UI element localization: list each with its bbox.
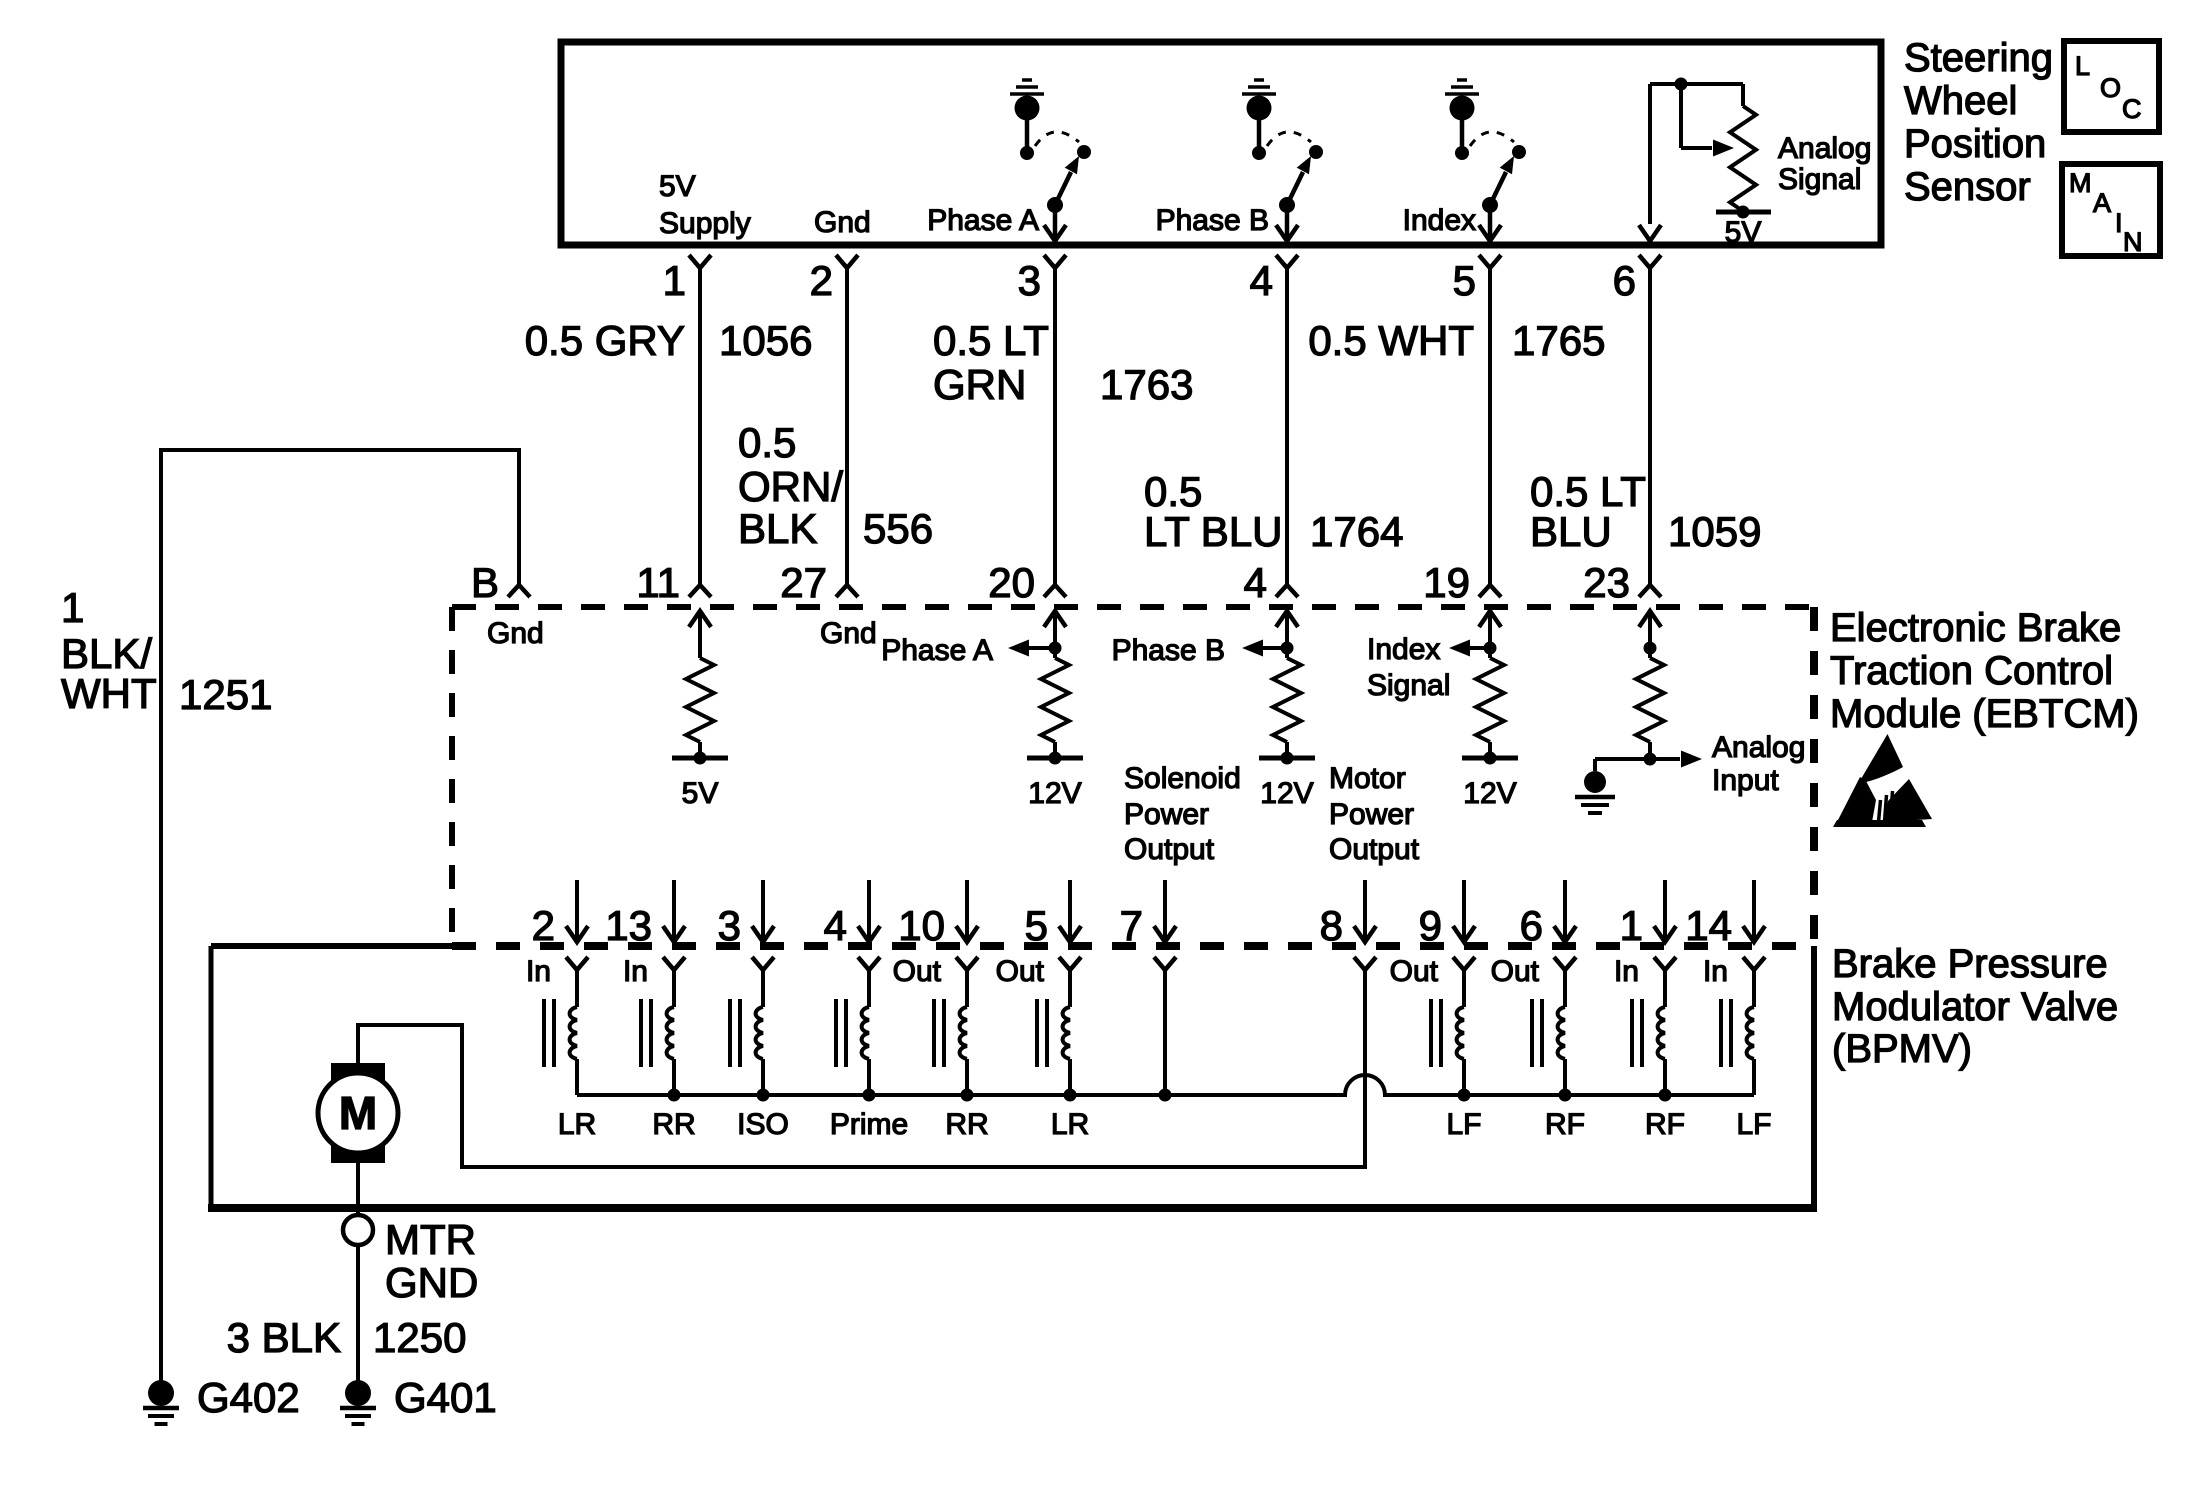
- label Motor Power Output: [1329, 762, 1420, 866]
- BPMV pin connector below EBTCM pin 10: [893, 955, 978, 988]
- svg-text:6: 6: [1520, 902, 1543, 949]
- svg-text:ORN/: ORN/: [738, 463, 843, 510]
- svg-text:Phase B: Phase B: [1112, 634, 1225, 667]
- svg-text:5: 5: [1025, 902, 1048, 949]
- svg-text:Phase A: Phase A: [927, 204, 1039, 237]
- EBTCM output pin 1 with arrow: [1620, 880, 1676, 949]
- svg-text:Module (EBTCM): Module (EBTCM): [1830, 692, 2139, 736]
- svg-text:Supply: Supply: [659, 207, 751, 240]
- sensor pin 6 connector: [1613, 255, 1661, 304]
- EBTCM pin 23 connector: [1583, 559, 1661, 606]
- svg-text:6: 6: [1613, 257, 1636, 304]
- BPMV pin connector below EBTCM pin 6: [1491, 955, 1576, 988]
- wire 1 BLK/WHT 1251 (EBTCM pin B to G402): [161, 450, 519, 1382]
- wire 0.5 LT BLU 1059 (sensor pin 6 to EBTCM): [1648, 268, 1652, 585]
- EBTCM output pin 8 with arrow: [1320, 880, 1376, 949]
- svg-text:LF: LF: [1446, 1108, 1481, 1141]
- svg-text:Gnd: Gnd: [487, 617, 544, 650]
- svg-text:Out: Out: [893, 955, 942, 988]
- solenoid coil LF (x=1754): [1721, 970, 1772, 1141]
- BPMV box left edge: [209, 946, 214, 1208]
- label Brake Pressure Modulator Valve (BPMV): [1832, 942, 2118, 1071]
- svg-text:14: 14: [1685, 902, 1732, 949]
- svg-text:M: M: [339, 1087, 377, 1139]
- BPMV pin connector below EBTCM pin 14: [1703, 955, 1765, 988]
- BPMV pin connector below EBTCM pin 2: [526, 955, 588, 988]
- label Solenoid Power Output: [1124, 762, 1241, 866]
- wire label 1 BLK/WHT 1251: [61, 584, 272, 718]
- BPMV box right edge: [1811, 946, 1817, 1208]
- bus junction at x=1165: [1159, 1089, 1172, 1102]
- solenoid coil Prime (x=869): [830, 970, 908, 1141]
- BPMV pin connector below EBTCM pin 13: [623, 955, 685, 988]
- svg-text:Output: Output: [1329, 833, 1420, 866]
- label 5V Supply (pin 1): [659, 170, 751, 240]
- solenoid coil ISO (x=763): [730, 970, 789, 1141]
- svg-text:4: 4: [1250, 257, 1273, 304]
- svg-text:5V: 5V: [659, 170, 696, 203]
- EBTCM output pin 2 with arrow: [532, 880, 588, 949]
- wire label 0.5 LT BLU 1059: [1530, 468, 1761, 555]
- ground G401: [340, 1374, 497, 1424]
- svg-text:0.5: 0.5: [738, 419, 796, 466]
- svg-text:19: 19: [1423, 559, 1470, 606]
- svg-text:Index: Index: [1367, 633, 1440, 666]
- svg-text:Wheel: Wheel: [1904, 79, 2017, 123]
- svg-text:ISO: ISO: [737, 1108, 789, 1141]
- 5V rail bar under potentiometer: [1716, 206, 1771, 250]
- svg-text:BLU: BLU: [1530, 508, 1612, 555]
- svg-text:23: 23: [1583, 559, 1630, 606]
- wire 0.5 LT GRN 1763 (sensor pin 3 to EBTCM): [1053, 268, 1057, 585]
- svg-text:0.5 LT: 0.5 LT: [933, 317, 1049, 364]
- ground G402: [143, 1374, 300, 1424]
- svg-text:Out: Out: [996, 955, 1045, 988]
- svg-text:Power: Power: [1329, 798, 1414, 831]
- bus junction at x=1565: [1559, 1089, 1572, 1102]
- EBTCM pin B connector: [471, 559, 530, 606]
- bus junction at x=763: [757, 1089, 770, 1102]
- EBTCM/BPMV shared dashed edge: [452, 942, 1814, 950]
- svg-text:MTR: MTR: [385, 1216, 476, 1263]
- BPMV pin connector below EBTCM pin 8: [1354, 957, 1376, 970]
- EBTCM output pin 5 with arrow: [1025, 880, 1081, 949]
- sensor pin 1 connector: [663, 255, 711, 304]
- svg-text:11: 11: [636, 559, 680, 606]
- Phase B signal tap arrow: [1112, 634, 1287, 667]
- bus junction at x=1070: [1064, 1089, 1077, 1102]
- svg-text:0.5 WHT: 0.5 WHT: [1308, 317, 1474, 364]
- Phase A signal tap arrow: [881, 634, 1055, 667]
- analog input resistor at pin 23: [1639, 611, 1661, 658]
- EBTCM output pin 7 with arrow: [1120, 880, 1176, 949]
- wire label 0.5 LT GRN 1763: [933, 317, 1193, 408]
- svg-text:Analog: Analog: [1712, 731, 1805, 764]
- svg-text:Power: Power: [1124, 798, 1209, 831]
- solenoid coil RR (x=674): [641, 970, 696, 1141]
- svg-text:Input: Input: [1712, 764, 1779, 797]
- svg-text:8: 8: [1320, 902, 1343, 949]
- svg-text:LR: LR: [558, 1108, 596, 1141]
- svg-text:3: 3: [718, 902, 741, 949]
- svg-text:10: 10: [898, 902, 945, 949]
- svg-text:1: 1: [663, 257, 686, 304]
- encoder contact switch for Phase A: [1010, 80, 1091, 241]
- label Steering Wheel Position Sensor: [1904, 36, 2053, 209]
- EBTCM pin 27 connector: [780, 559, 858, 606]
- svg-text:4: 4: [1244, 559, 1267, 606]
- svg-text:13: 13: [605, 902, 652, 949]
- BPMV pin connector below EBTCM pin 9: [1390, 955, 1475, 988]
- pump motor M: [318, 1063, 398, 1163]
- potentiometer R (analog signal) with 5V rail: [1639, 78, 1743, 242]
- svg-text:Prime: Prime: [830, 1108, 908, 1141]
- svg-text:In: In: [1703, 955, 1728, 988]
- svg-text:Phase A: Phase A: [881, 634, 993, 667]
- svg-text:Modulator Valve: Modulator Valve: [1832, 985, 2118, 1029]
- pull-up resistor to 12V at pin 19: [1479, 611, 1501, 658]
- steering wheel position sensor box: [561, 42, 1881, 245]
- svg-text:20: 20: [988, 559, 1035, 606]
- EBTCM output pin 10 with arrow: [898, 880, 978, 949]
- EBTCM output pin 3 with arrow: [718, 880, 774, 949]
- svg-text:12V: 12V: [1463, 777, 1516, 810]
- EBTCM output pin 6 with arrow: [1520, 880, 1576, 949]
- svg-text:27: 27: [780, 559, 827, 606]
- BPMV pin connector below EBTCM pin 7: [1154, 957, 1176, 970]
- wire label 0.5 GRY 1056: [525, 317, 813, 364]
- sensor pin 2 connector: [810, 255, 858, 304]
- ESD sensitive device symbol: [1833, 734, 1932, 827]
- solenoid coil LR (x=577): [544, 970, 596, 1141]
- svg-text:12V: 12V: [1028, 777, 1081, 810]
- svg-text:C: C: [2122, 94, 2142, 124]
- internal ground symbol at pin 23: [1575, 771, 1615, 813]
- svg-text:2: 2: [532, 902, 555, 949]
- svg-text:1764: 1764: [1310, 508, 1403, 555]
- solenoid coil LR (x=1070): [1037, 970, 1089, 1141]
- wire 3 BLK 1250: [227, 1245, 467, 1382]
- bus junction at x=1665: [1659, 1089, 1672, 1102]
- svg-text:RR: RR: [945, 1108, 988, 1141]
- resistor element of potentiometer: [1730, 106, 1756, 211]
- bus junction at x=869: [863, 1089, 876, 1102]
- label Analog Signal: [1778, 132, 1871, 196]
- svg-text:Position: Position: [1904, 122, 2046, 166]
- bus junction at x=967: [961, 1089, 974, 1102]
- EBTCM output pin 4 with arrow: [824, 880, 880, 949]
- svg-text:In: In: [623, 955, 648, 988]
- wire 0.5 WHT 1765 (sensor pin 5 to EBTCM): [1488, 268, 1492, 585]
- svg-text:5V: 5V: [682, 777, 719, 810]
- svg-text:Out: Out: [1491, 955, 1540, 988]
- solenoid coil RR (x=967): [934, 970, 989, 1141]
- EBTCM pin 19 connector: [1423, 559, 1501, 606]
- EBTCM output pin 14 with arrow: [1685, 880, 1765, 949]
- svg-text:Analog: Analog: [1778, 132, 1871, 165]
- sensor pin 4 connector: [1250, 255, 1298, 304]
- BPMV pin connector below EBTCM pin 4: [858, 957, 880, 970]
- BPMV pin connector below EBTCM pin 5: [996, 955, 1081, 988]
- svg-text:Traction Control: Traction Control: [1830, 649, 2113, 693]
- EBTCM dashed box top edge: [452, 604, 1815, 610]
- svg-text:G402: G402: [197, 1374, 300, 1421]
- svg-text:Gnd: Gnd: [814, 206, 871, 239]
- svg-text:GND: GND: [385, 1259, 478, 1306]
- EBTCM pin 4 connector: [1244, 559, 1298, 606]
- svg-text:12V: 12V: [1260, 777, 1313, 810]
- svg-text:Gnd: Gnd: [820, 617, 877, 650]
- motor ground wire: [356, 1163, 360, 1215]
- EBTCM pin 20 connector: [988, 559, 1066, 606]
- svg-text:In: In: [526, 955, 551, 988]
- Analog Input arrow: [1650, 731, 1805, 797]
- svg-text:BLK: BLK: [738, 505, 817, 552]
- svg-text:Sensor: Sensor: [1904, 165, 2031, 209]
- wire label 0.5 ORN/BLK 556: [738, 419, 933, 552]
- svg-text:RR: RR: [652, 1108, 695, 1141]
- svg-text:Steering: Steering: [1904, 36, 2053, 80]
- EBTCM pin 11 connector: [636, 559, 711, 606]
- encoder contact switch for Index: [1445, 80, 1526, 241]
- svg-text:Index: Index: [1403, 204, 1476, 237]
- svg-text:Brake Pressure: Brake Pressure: [1832, 942, 2108, 986]
- svg-text:(BPMV): (BPMV): [1832, 1027, 1972, 1071]
- LOC reference box: [2064, 41, 2159, 132]
- svg-text:LT BLU: LT BLU: [1144, 508, 1283, 555]
- svg-text:Signal: Signal: [1367, 669, 1450, 702]
- svg-text:Out: Out: [1390, 955, 1439, 988]
- svg-text:Output: Output: [1124, 833, 1215, 866]
- wire label 0.5 WHT 1765: [1308, 317, 1605, 364]
- svg-text:G401: G401: [394, 1374, 497, 1421]
- svg-text:1056: 1056: [719, 317, 812, 364]
- svg-text:B: B: [471, 559, 499, 606]
- bus junction at x=1464: [1458, 1089, 1471, 1102]
- svg-text:N: N: [2123, 227, 2143, 257]
- svg-text:GRN: GRN: [933, 361, 1026, 408]
- svg-text:A: A: [2093, 188, 2111, 218]
- svg-text:Motor: Motor: [1329, 762, 1406, 795]
- svg-text:I: I: [2115, 208, 2123, 238]
- svg-text:9: 9: [1419, 902, 1442, 949]
- wire EBTCM pin 8 to pump motor: [358, 970, 1365, 1167]
- svg-text:556: 556: [863, 505, 933, 552]
- bus junction at x=674: [668, 1089, 681, 1102]
- sensor pin 3 connector: [1018, 255, 1066, 304]
- solenoid common bus (left group) with hop over pin 8 wire: [577, 1075, 1754, 1095]
- svg-text:4: 4: [824, 902, 847, 949]
- svg-text:WHT: WHT: [61, 670, 157, 717]
- solenoid coil RF (x=1665): [1632, 970, 1685, 1141]
- svg-text:In: In: [1614, 955, 1639, 988]
- EBTCM output pin 13 with arrow: [605, 880, 685, 949]
- svg-text:7: 7: [1120, 902, 1143, 949]
- svg-text:1763: 1763: [1100, 361, 1193, 408]
- wire 0.5 GRY 1056 (sensor pin 1 to EBTCM): [698, 268, 702, 585]
- svg-text:1059: 1059: [1668, 508, 1761, 555]
- analog input node wiring and ground: [1595, 742, 1657, 771]
- svg-text:5V: 5V: [1725, 216, 1762, 249]
- svg-text:1251: 1251: [179, 671, 272, 718]
- svg-text:3 BLK: 3 BLK: [227, 1314, 341, 1361]
- svg-text:0.5 GRY: 0.5 GRY: [525, 317, 685, 364]
- BPMV box top-left solid segment: [211, 943, 452, 949]
- svg-text:5: 5: [1453, 257, 1476, 304]
- svg-text:LR: LR: [1051, 1108, 1089, 1141]
- svg-text:1: 1: [1620, 902, 1643, 949]
- wire label 0.5 LT BLU 1764: [1144, 468, 1403, 555]
- wire 0.5 ORN/BLK 556 (sensor pin 2 to EBTCM): [845, 268, 849, 585]
- MAIN reference box: [2062, 164, 2160, 257]
- solenoid coil RF (x=1565): [1532, 970, 1585, 1141]
- svg-text:Solenoid: Solenoid: [1124, 762, 1241, 795]
- potentiometer wiper arrow: [1681, 84, 1734, 157]
- encoder contact switch for Phase B: [1242, 80, 1323, 241]
- EBTCM dashed box left edge: [449, 607, 455, 946]
- svg-text:3: 3: [1018, 257, 1041, 304]
- EBTCM dashed box right edge: [1810, 607, 1818, 946]
- svg-text:1250: 1250: [373, 1314, 466, 1361]
- EBTCM output pin 9 with arrow: [1419, 880, 1475, 949]
- svg-text:2: 2: [810, 257, 833, 304]
- pull-up resistor to 12V at pin 4: [1276, 611, 1298, 658]
- BPMV pin connector below EBTCM pin 1: [1614, 955, 1676, 988]
- BPMV pin connector below EBTCM pin 3: [752, 957, 774, 970]
- Index Signal tap arrow: [1367, 633, 1490, 702]
- svg-text:O: O: [2100, 73, 2121, 103]
- svg-text:RF: RF: [1645, 1108, 1685, 1141]
- svg-text:Phase B: Phase B: [1156, 204, 1269, 237]
- svg-text:RF: RF: [1545, 1108, 1585, 1141]
- svg-text:Signal: Signal: [1778, 163, 1861, 196]
- pin 7 wire to solenoid common bus: [1163, 970, 1167, 1095]
- svg-text:1: 1: [61, 584, 84, 631]
- svg-text:Electronic Brake: Electronic Brake: [1830, 606, 2121, 650]
- wire 0.5 LT BLU 1764 (sensor pin 4 to EBTCM): [1285, 268, 1289, 585]
- svg-text:L: L: [2075, 51, 2090, 81]
- svg-text:M: M: [2069, 168, 2092, 198]
- svg-text:LF: LF: [1736, 1108, 1771, 1141]
- MTR GND terminal: [343, 1215, 478, 1306]
- pull-up resistor to 5V at pin 11: [689, 611, 711, 658]
- svg-text:1765: 1765: [1512, 317, 1605, 364]
- sensor pin 5 connector: [1453, 255, 1501, 304]
- pull-up resistor to 12V at pin 20: [1044, 611, 1066, 658]
- BPMV box bottom edge: [208, 1204, 1817, 1212]
- label Electronic Brake Traction Control Module (EBTCM): [1830, 606, 2139, 736]
- solenoid coil LF (x=1464): [1431, 970, 1482, 1141]
